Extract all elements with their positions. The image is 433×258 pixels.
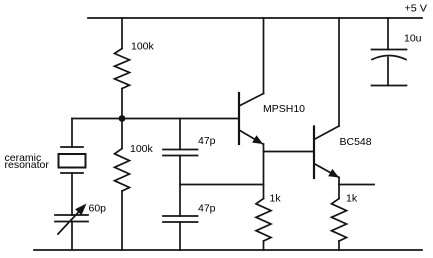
wire Q1 emitter column down to R3 xyxy=(263,144,265,199)
svg-text:+5 V: +5 V xyxy=(405,3,428,15)
wire Q2 emitter output stub xyxy=(339,184,374,186)
svg-text:1k: 1k xyxy=(346,193,358,205)
resistor R4 1k xyxy=(332,199,347,242)
svg-text:BC548: BC548 xyxy=(340,136,372,148)
wire R2 top lead from node A xyxy=(121,119,123,149)
transistor Q2 emitter diagonal xyxy=(314,164,339,178)
svg-text:47p: 47p xyxy=(198,135,216,147)
wire ground bottom rail xyxy=(34,249,422,251)
svg-text:10u: 10u xyxy=(404,33,422,45)
svg-text:1k: 1k xyxy=(270,193,282,205)
wire node A horizontal to Q1 base xyxy=(72,118,239,120)
capacitor 60p arrowhead xyxy=(75,204,86,216)
wire R4 to ground rail xyxy=(338,241,340,250)
capacitor C3 10u curved plate xyxy=(372,56,406,60)
capacitor 60p top plate xyxy=(55,214,88,216)
capacitor C2 47p top plate xyxy=(163,215,198,217)
transistor Q2 collector diagonal xyxy=(314,126,339,140)
transistor Q2 emitter arrowhead xyxy=(328,169,339,178)
capacitor C1 47p top plate xyxy=(163,149,198,151)
ceramic resonator X1 top plate xyxy=(61,146,83,148)
wire C1 top lead from node A xyxy=(179,119,181,150)
svg-text:100k: 100k xyxy=(131,41,155,53)
node A junction dot xyxy=(119,115,126,122)
resistor R3 1k xyxy=(256,199,271,242)
capacitor 60p variable arrow shaft xyxy=(58,208,82,234)
wire Q1 collector to +5V rail xyxy=(263,18,265,94)
transistor Q2 BC548 base bar xyxy=(313,127,315,179)
wire Q1 emitter to Q2 base xyxy=(264,151,315,153)
wire R1 top lead from rail xyxy=(121,18,123,49)
transistor Q1 MPSH10 base bar xyxy=(238,93,240,144)
svg-text:100k: 100k xyxy=(130,143,154,155)
transistor Q1 emitter diagonal xyxy=(239,130,263,144)
wire R3 to ground rail xyxy=(263,241,265,250)
wire resonator to C-60p xyxy=(71,173,73,215)
wire node B from caps to emitter column xyxy=(180,184,264,186)
capacitor C3 10u flat plate xyxy=(372,49,407,51)
capacitor 60p bottom plate xyxy=(55,221,88,223)
svg-text:47p: 47p xyxy=(198,203,216,215)
wire 60p to ground rail xyxy=(71,222,73,251)
wire Q2 collector to +5V rail xyxy=(338,18,340,126)
transistor Q1 emitter arrowhead xyxy=(252,135,263,144)
transistor Q1 collector diagonal xyxy=(239,94,264,107)
wire C3 bottom lead xyxy=(387,58,389,86)
ceramic resonator X1 body xyxy=(59,154,86,168)
wire C1 to C2 xyxy=(179,156,181,217)
wire resonator top lead xyxy=(71,119,73,148)
wire R1 bottom lead to node A xyxy=(121,89,123,119)
wire C3 top lead from rail xyxy=(387,18,389,50)
svg-text:MPSH10: MPSH10 xyxy=(263,103,305,115)
ceramic resonator X1 bottom plate xyxy=(61,172,83,174)
resistor R2 100k xyxy=(115,149,130,192)
resistor R1 100k xyxy=(115,49,130,89)
svg-text:60p: 60p xyxy=(89,203,107,215)
capacitor C2 47p bottom plate xyxy=(163,221,198,223)
ground bar under C3 xyxy=(372,85,407,87)
wire R2 bottom lead to ground rail xyxy=(121,191,123,250)
wire C2 to ground rail xyxy=(179,222,181,250)
capacitor C1 47p bottom plate xyxy=(163,155,198,157)
wire +5V top rail xyxy=(88,17,422,19)
svg-text:resonator: resonator xyxy=(5,159,50,171)
wire Q2 emitter down to R4 xyxy=(338,178,340,199)
